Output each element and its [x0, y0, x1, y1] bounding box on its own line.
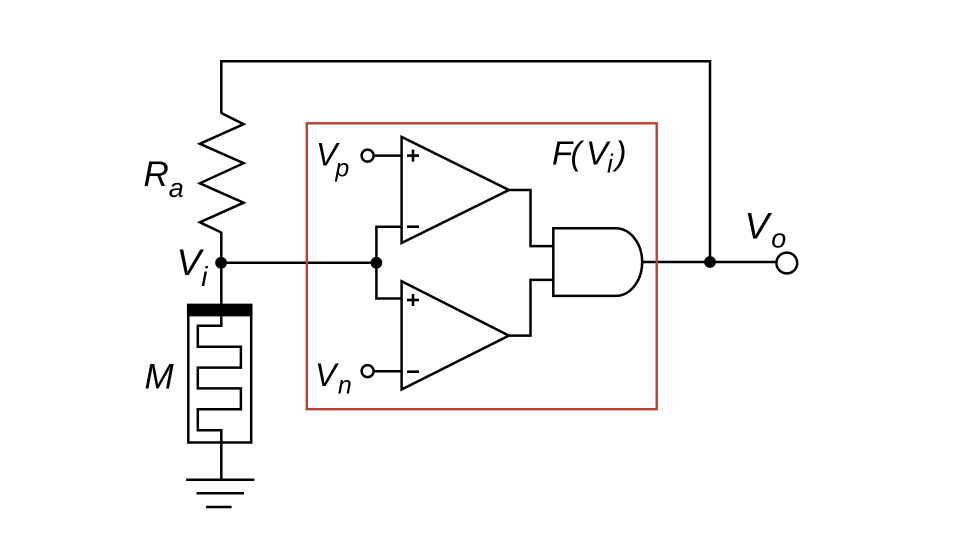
memristor body outline [188, 305, 251, 443]
terminal circle Vo [776, 253, 797, 274]
resistor R1 (Ra) zigzag [200, 113, 244, 233]
plus sign top comparator [407, 150, 419, 162]
wire feedback top: resistor top to output node [221, 61, 710, 262]
svg-text:(: ( [571, 135, 585, 172]
memristor M1 [187, 304, 253, 443]
junction dot comparator inputs [371, 257, 383, 269]
wire node Vi to comparators junction [221, 262, 376, 265]
wire junction to bottom comparator non-inverting input [376, 263, 401, 299]
wire Vn terminal to bottom comparator [374, 370, 402, 373]
memristor top electrode bar [187, 304, 253, 316]
svg-text:Vp: Vp [316, 137, 349, 183]
op-amp U2 bottom comparator [402, 281, 509, 389]
svg-text:Vo: Vo [745, 206, 787, 254]
wire resistor bottom to memristor top through node Vi [220, 232, 223, 305]
svg-text:): ) [612, 135, 627, 172]
svg-text:M: M [145, 358, 175, 397]
svg-text:Vn: Vn [315, 357, 352, 400]
memristor internal meander [198, 317, 241, 443]
junction dot node Vi [215, 257, 227, 269]
minus sign top comparator [407, 225, 419, 228]
svg-text:i: i [607, 149, 614, 179]
terminal circle Vn [362, 365, 374, 377]
wire junction to top comparator inverting input [376, 227, 401, 263]
terminal circle Vp [362, 150, 374, 162]
op-amp U1 top comparator [402, 137, 509, 243]
minus sign bottom comparator [407, 370, 419, 373]
ground [186, 480, 254, 507]
wire Vp terminal to top comparator [374, 154, 402, 157]
svg-text:Vi: Vi [177, 242, 209, 292]
wire bottom comparator output to AND gate input [509, 280, 553, 336]
red function box F(Vi) [307, 123, 657, 409]
junction dot output node [704, 256, 716, 268]
wire AND gate output to Vo terminal [642, 261, 775, 264]
plus sign bottom comparator [407, 294, 419, 306]
wire memristor bottom to ground [220, 442, 223, 480]
wire top comparator output to AND gate input [509, 190, 553, 246]
AND gate [553, 228, 642, 296]
svg-text:Ra: Ra [144, 155, 184, 203]
